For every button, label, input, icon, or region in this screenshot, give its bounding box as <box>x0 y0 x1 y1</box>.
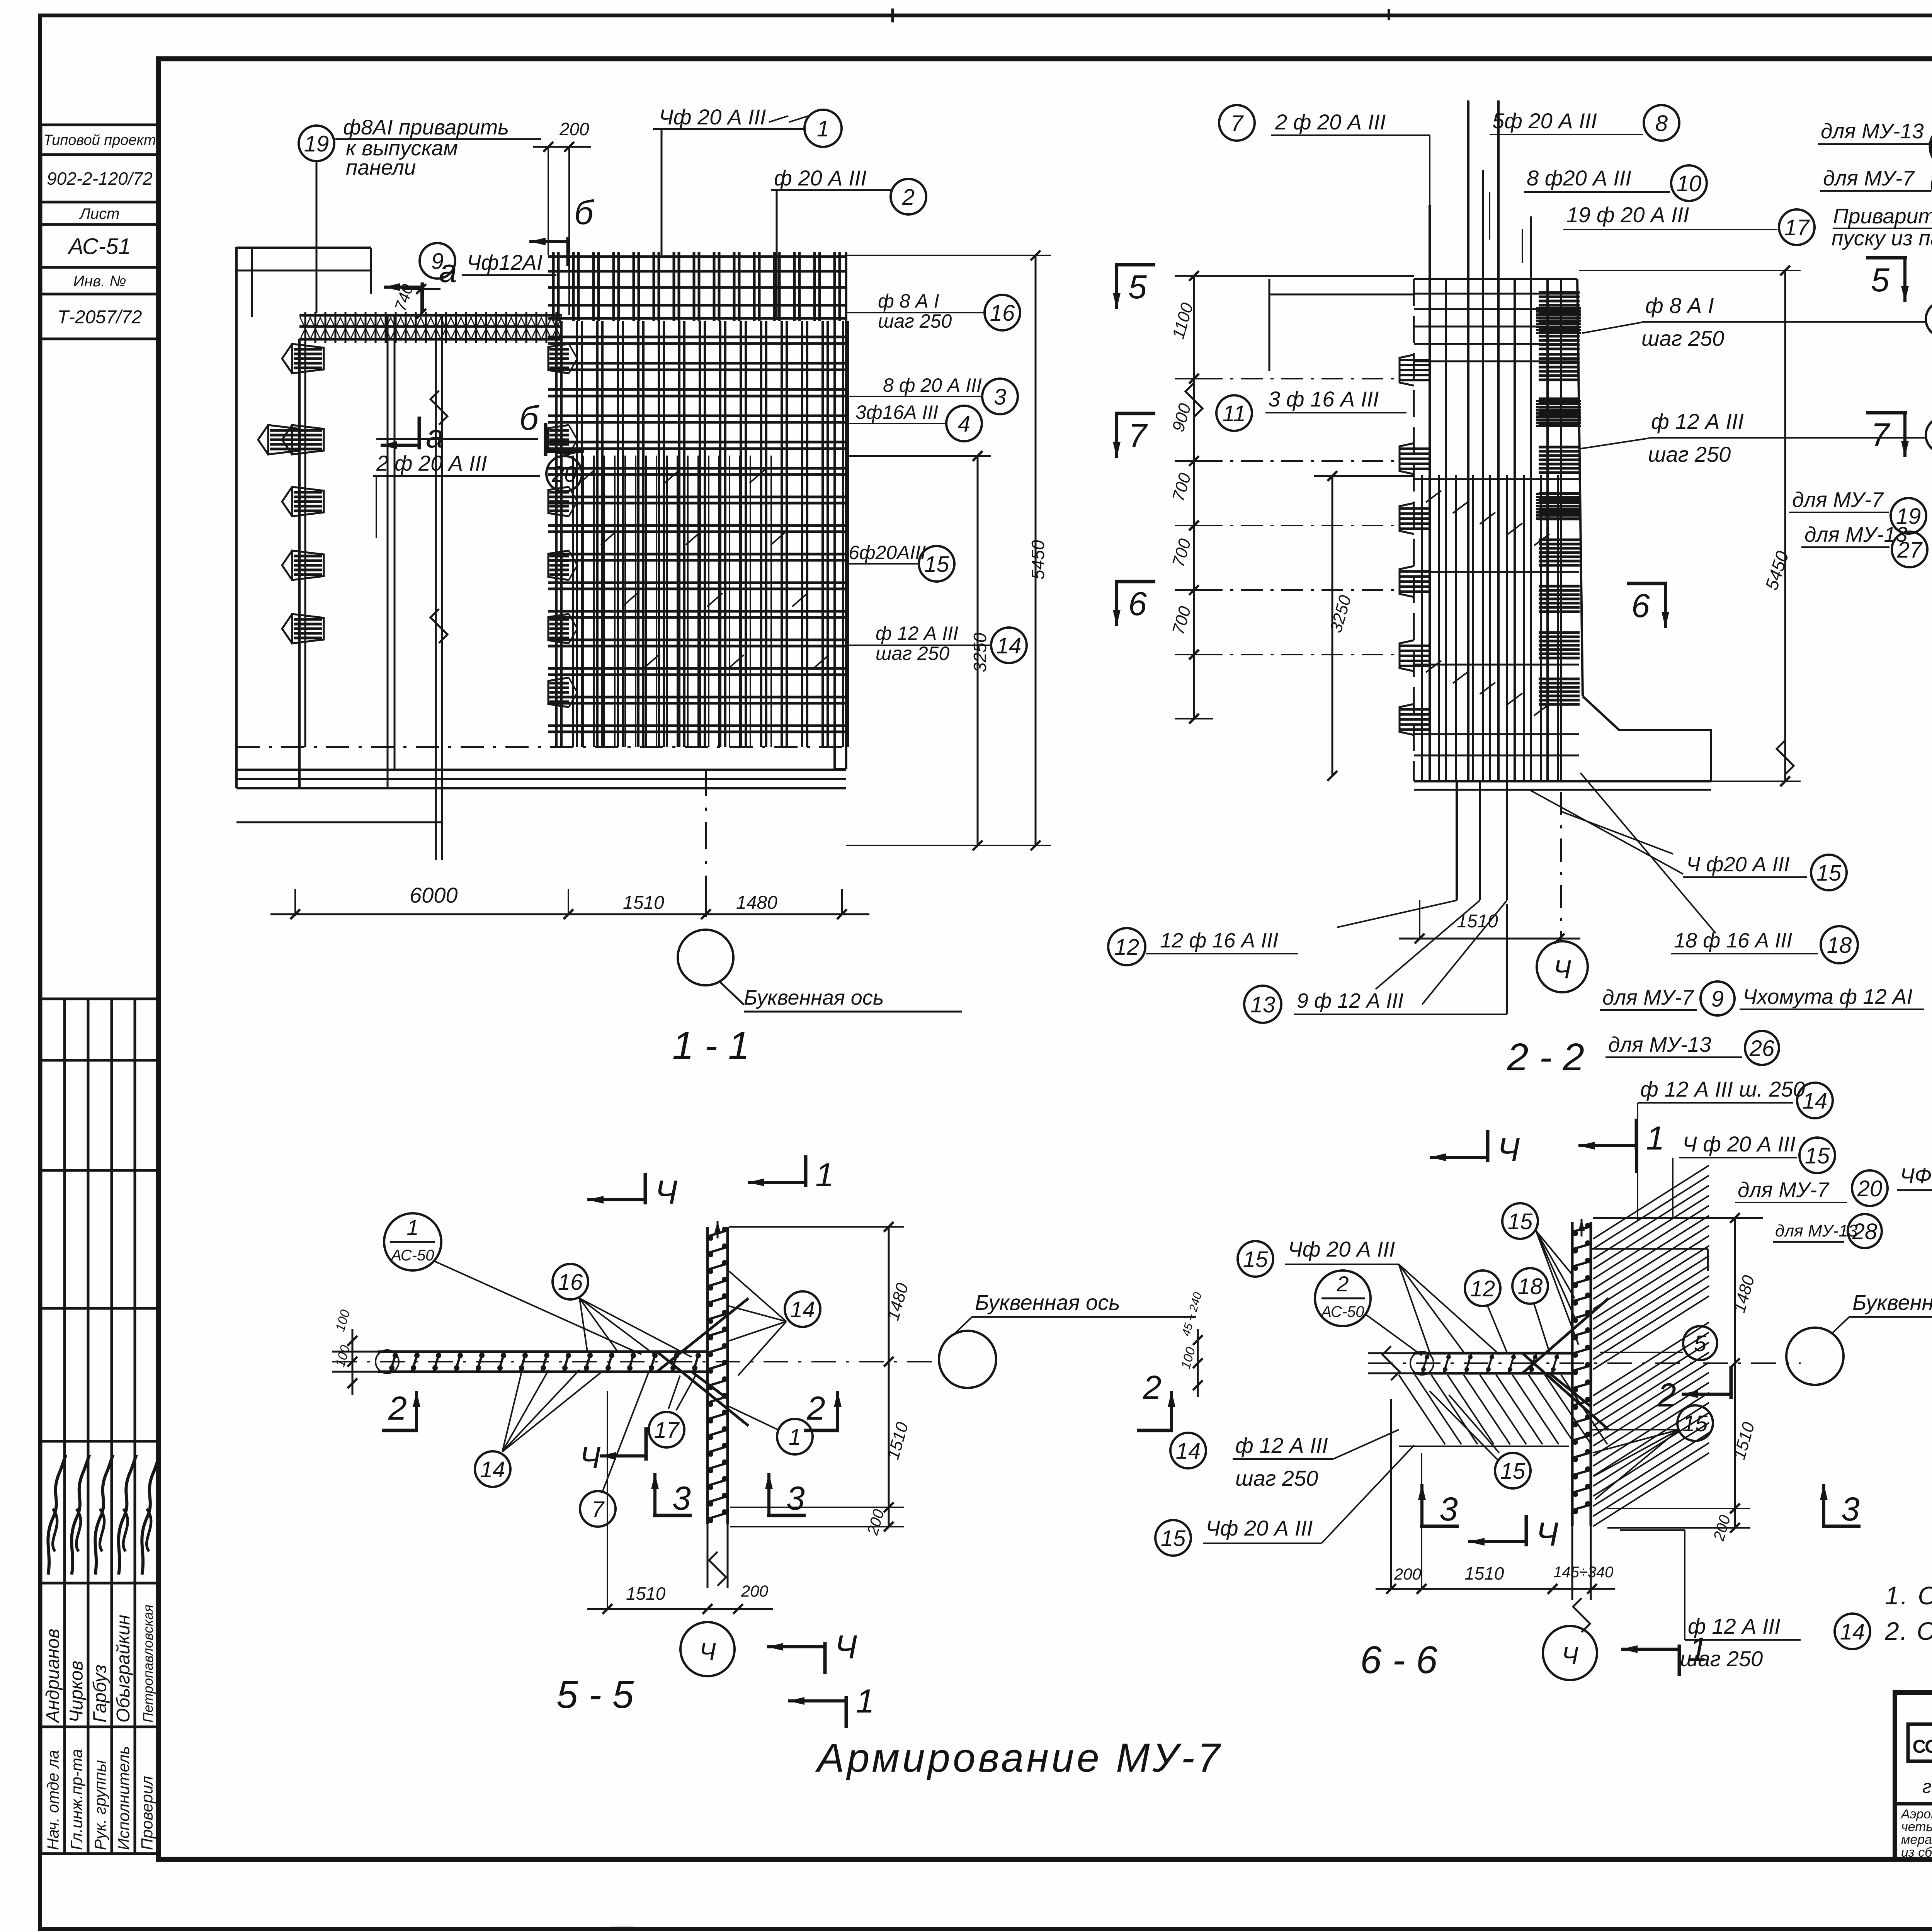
view 1-1: main grid horizontal bar pairs upper <box>548 336 846 338</box>
view 2-2: bottom dim 1510 <box>1399 938 1580 940</box>
view 2-2: callout 13 = 9ф12АIII <box>1244 986 1281 1023</box>
svg-text:1: 1 <box>1646 1120 1665 1157</box>
svg-text:2: 2 <box>1657 1377 1676 1414</box>
svg-text:20: 20 <box>1857 1176 1883 1201</box>
view 5-5: dim 1510 right <box>884 1502 893 1512</box>
svg-text:9: 9 <box>1711 986 1724 1012</box>
svg-text:СОЮЗВОДОКАНАЛПРОЕКТ: СОЮЗВОДОКАНАЛПРОЕКТ <box>1913 1736 1932 1757</box>
svg-text:2 - 2: 2 - 2 <box>1507 1036 1584 1079</box>
svg-text:3: 3 <box>786 1480 805 1517</box>
svg-text:ф 12 А III ш. 250: ф 12 А III ш. 250 <box>1640 1077 1805 1101</box>
svg-text:Обыграйкин: Обыграйкин <box>113 1615 134 1723</box>
svg-text:ф 20 А III: ф 20 А III <box>774 166 867 190</box>
svg-text:Гарбуз: Гарбуз <box>90 1665 111 1723</box>
svg-text:ф 12 А III: ф 12 А III <box>876 622 958 644</box>
svg-text:АС-51: АС-51 <box>67 234 131 259</box>
svg-text:3: 3 <box>994 384 1006 410</box>
svg-text:12: 12 <box>1114 935 1139 960</box>
svg-text:15: 15 <box>1500 1459 1526 1484</box>
view 6-6: fan hatch below-left of horizontal bar <box>1399 1375 1445 1444</box>
svg-text:2. Совместно с данным листом: 2. Совместно с данным листом см. лист АС… <box>1884 1617 1932 1645</box>
svg-text:5 - 5: 5 - 5 <box>556 1673 634 1716</box>
view 2-2: horizontal bars across wall <box>1414 293 1579 295</box>
view 6-6: callout 15 right mid <box>1677 1405 1713 1441</box>
view 2-2: wall outline <box>1413 279 1415 781</box>
view 5-5: dim 1480 right <box>888 1227 890 1527</box>
view 5-5: callout 14 right <box>785 1291 820 1327</box>
svg-text:2: 2 <box>1143 1369 1162 1406</box>
svg-text:Ч ф20 А III: Ч ф20 А III <box>1686 853 1790 876</box>
view 5-5: section mark 4 top <box>587 1198 645 1201</box>
svg-text:5: 5 <box>1871 262 1890 299</box>
view 6-6: fan hatch right of bar upper <box>1593 1165 1709 1239</box>
svg-text:Андрианов: Андрианов <box>43 1629 63 1724</box>
view 5-5: letter axis circle right <box>939 1331 996 1388</box>
fold tick marks on outer border <box>891 9 894 22</box>
view 1-1: inner dense sub-grid (lower portion) <box>572 456 574 747</box>
svg-text:пуску из панели: пуску из панели <box>1832 226 1932 250</box>
svg-text:10: 10 <box>1677 171 1702 196</box>
svg-text:8: 8 <box>1655 111 1668 136</box>
svg-text:7: 7 <box>592 1497 605 1522</box>
view 6-6: callout 15 lower mid <box>1495 1453 1531 1488</box>
svg-text:8 ф 20 А III: 8 ф 20 А III <box>883 374 982 396</box>
svg-text:а: а <box>426 418 444 454</box>
svg-text:14: 14 <box>1176 1439 1201 1464</box>
svg-text:Армирование МУ-7: Армирование МУ-7 <box>815 1735 1223 1781</box>
svg-text:для МУ-7: для МУ-7 <box>1602 985 1694 1009</box>
svg-text:Нач. отде ла: Нач. отде ла <box>44 1750 62 1850</box>
view 6-6: dim 200 right <box>1730 1523 1740 1532</box>
view 1-1: grid right edge verticals <box>833 252 836 769</box>
svg-text:б: б <box>574 193 595 231</box>
view 6-6: dims 100/45÷240 left <box>1197 1329 1199 1397</box>
view 1-1: main grid verticals <box>555 321 558 747</box>
svg-text:145÷340: 145÷340 <box>1553 1564 1613 1581</box>
view 2-2: dense splice bundles <box>1536 307 1581 310</box>
view 5-5: junction diagonals <box>657 1298 748 1372</box>
svg-text:6: 6 <box>1128 585 1147 622</box>
svg-text:1: 1 <box>817 116 829 141</box>
svg-text:Проверил: Проверил <box>138 1776 156 1850</box>
svg-text:26: 26 <box>1749 1036 1775 1061</box>
svg-text:г. Москва: г. Москва <box>1922 1777 1932 1797</box>
view 1-1: callout 9 = 4ф12АI <box>420 243 455 279</box>
view 6-6: dim 1480 right <box>1734 1218 1736 1528</box>
svg-text:15: 15 <box>1243 1247 1268 1272</box>
signature squiggle 5 <box>142 1455 160 1575</box>
view 5-5: center axis line <box>332 1361 940 1362</box>
view 2-2: top extension lines <box>1196 275 1414 277</box>
view 2-2: left shear keys <box>1400 355 1414 386</box>
view 2-2: section marks left <box>1115 265 1118 309</box>
view 6-6: upper-right region lines <box>1591 1248 1708 1250</box>
signature squiggle 2 <box>71 1455 89 1575</box>
view 6-6: vertical bar column <box>1571 1222 1574 1526</box>
view 1-1: dense top band grid <box>552 252 555 321</box>
svg-text:АС-50: АС-50 <box>1320 1303 1364 1320</box>
svg-text:5: 5 <box>1128 269 1147 306</box>
view 1-1: section mark a upper <box>384 286 422 289</box>
svg-text:9 ф 12 А III: 9 ф 12 А III <box>1297 989 1403 1012</box>
view 1-1: inner dim 3250 <box>977 456 979 845</box>
view 2-2: axis circle 4 <box>1560 792 1562 941</box>
view 5-5: section marks 3 <box>653 1473 656 1515</box>
svg-text:11: 11 <box>1223 401 1246 426</box>
svg-text:Рук. группы: Рук. группы <box>91 1760 109 1850</box>
view 6-6: letter axis circle <box>1786 1328 1844 1385</box>
svg-text:1: 1 <box>406 1215 418 1240</box>
svg-text:Лист: Лист <box>79 205 120 222</box>
view 5-5: dims 100 100 left <box>352 1329 354 1395</box>
svg-text:1. Опалубочный чертеж МУ-7 см.: 1. Опалубочный чертеж МУ-7 см. лист АС-4… <box>1885 1581 1932 1610</box>
view 6-6: section marks 3 <box>1420 1484 1423 1526</box>
svg-text:шаг 250: шаг 250 <box>1648 442 1731 466</box>
svg-text:1: 1 <box>856 1683 874 1720</box>
view 6-6: vertical bar tails <box>1571 1526 1573 1600</box>
svg-text:Ч: Ч <box>1561 1641 1578 1669</box>
svg-text:19 ф 20 А III: 19 ф 20 А III <box>1566 202 1689 227</box>
svg-text:1: 1 <box>789 1425 801 1450</box>
view 2-2: right edge bar bundles <box>1539 291 1580 294</box>
svg-text:Петропавловская: Петропавловская <box>140 1605 156 1723</box>
svg-text:Ч: Ч <box>580 1440 600 1475</box>
view 6-6: callout 14 = ф12АIII шаг 250 <box>1170 1433 1206 1468</box>
svg-text:Чф12АI: Чф12АI <box>467 250 543 274</box>
svg-text:1: 1 <box>815 1156 834 1194</box>
svg-text:для МУ-13: для МУ-13 <box>1608 1032 1711 1056</box>
view 1-1: horizontal mesh band (4ф12АI) <box>299 314 562 317</box>
svg-text:из сборного железобетона.: из сборного железобетона. <box>1901 1845 1932 1860</box>
view 5-5: horizontal bar row <box>378 1350 707 1353</box>
svg-text:4: 4 <box>958 412 970 437</box>
view 1-1: wide key (2ф20АIII target) <box>268 425 300 454</box>
title block frame <box>1895 1692 1932 1859</box>
view 5-5: callout 1/AC-50 <box>384 1213 441 1270</box>
svg-text:Ч: Ч <box>1536 1516 1558 1553</box>
svg-text:200: 200 <box>559 119 589 139</box>
view 6-6: horizontal bar row <box>1413 1352 1572 1355</box>
svg-text:200: 200 <box>1394 1565 1422 1583</box>
svg-text:шаг 250: шаг 250 <box>1641 326 1724 350</box>
view 1-1: left wall edge lines <box>235 247 238 788</box>
svg-text:2: 2 <box>806 1390 825 1427</box>
view 6-6: callout 15 left = 4ф20АIII <box>1238 1241 1273 1277</box>
svg-text:2: 2 <box>388 1390 407 1427</box>
svg-text:14: 14 <box>997 633 1022 658</box>
stamp column boxes <box>41 125 158 155</box>
view 2-2: dim 3250 inner <box>1332 476 1333 776</box>
svg-text:15: 15 <box>1816 861 1842 886</box>
svg-text:для МУ-7: для МУ-7 <box>1738 1178 1830 1202</box>
svg-text:шаг 250: шаг 250 <box>1235 1466 1318 1490</box>
view 5-5: horizontal bar left tails <box>332 1351 378 1353</box>
svg-text:20: 20 <box>551 462 577 487</box>
svg-text:Ч: Ч <box>699 1638 716 1665</box>
svg-text:АС-50: АС-50 <box>390 1247 434 1264</box>
svg-text:Чф 20 А III: Чф 20 А III <box>659 105 766 129</box>
svg-text:5: 5 <box>1694 1331 1707 1356</box>
svg-text:17: 17 <box>1784 215 1810 240</box>
view 2-2: dash-dot axis lines to keys <box>1201 378 1400 379</box>
svg-text:14: 14 <box>1840 1619 1865 1645</box>
svg-text:1510: 1510 <box>1457 911 1498 932</box>
view 1-1: bottom dashed axis line <box>236 746 846 748</box>
svg-text:15: 15 <box>1508 1209 1533 1234</box>
svg-text:3 ф 16 А III: 3 ф 16 А III <box>1268 387 1379 411</box>
svg-text:14: 14 <box>790 1297 815 1322</box>
svg-text:6ф20АIII: 6ф20АIII <box>849 542 926 563</box>
view 5-5: callout 16 <box>553 1264 588 1299</box>
svg-text:Гл.инж.пр-та: Гл.инж.пр-та <box>68 1749 86 1850</box>
view 1-1: main grid horizontal bar pairs lower <box>548 467 846 470</box>
view 6-6: center axis line <box>1368 1362 1801 1364</box>
svg-text:15: 15 <box>1805 1143 1830 1168</box>
svg-text:15: 15 <box>924 552 949 577</box>
view 5-5: section mark 4 bottom + 1 <box>767 1645 825 1648</box>
view 6-6: callout 2/AC-50 <box>1315 1270 1371 1326</box>
view 1-1: right dim 5450 <box>1035 255 1037 846</box>
view 6-6: axis circle bottom <box>1543 1626 1597 1680</box>
view 6-6: callouts 12 18 <box>1465 1270 1500 1306</box>
svg-text:1480: 1480 <box>736 893 777 913</box>
view 6-6: horizontal bar left tails <box>1368 1352 1413 1354</box>
svg-text:3250: 3250 <box>970 633 990 672</box>
svg-text:27: 27 <box>1897 537 1923 563</box>
svg-text:для МУ-13: для МУ-13 <box>1775 1221 1858 1240</box>
view 2-2: lower-mid sub-grid <box>1421 475 1423 781</box>
svg-text:3: 3 <box>1841 1491 1860 1528</box>
svg-text:28: 28 <box>1852 1219 1878 1244</box>
svg-text:ф8АI приварить: ф8АI приварить <box>343 115 509 139</box>
svg-text:Типовой проект: Типовой проект <box>43 132 156 148</box>
svg-text:5ф 20 А III: 5ф 20 А III <box>1492 109 1597 133</box>
svg-text:12: 12 <box>1470 1276 1495 1301</box>
view 6-6: section mark 1 top <box>1578 1144 1636 1147</box>
view 5-5: callout 1 mid <box>777 1419 813 1454</box>
svg-text:ф 12 А III: ф 12 А III <box>1688 1614 1781 1638</box>
svg-text:Исполнитель: Исполнитель <box>114 1746 133 1850</box>
view 5-5: callout 14 left <box>475 1451 510 1487</box>
view 2-2: callout 12 = 12ф16АIII <box>1108 928 1145 965</box>
view 2-2: callout 11 = 3ф16АIII <box>1216 395 1252 431</box>
view 6-6: section mark 1 bottom + 4 label <box>1621 1648 1679 1651</box>
svg-text:18: 18 <box>1518 1274 1543 1299</box>
svg-text:6: 6 <box>1631 587 1650 624</box>
svg-text:Ч: Ч <box>655 1174 677 1211</box>
view 6-6: section mark 4 top-left <box>1430 1156 1488 1159</box>
svg-text:а: а <box>439 253 457 289</box>
svg-text:ЧФ 20А-III: ЧФ 20А-III <box>1900 1163 1932 1188</box>
svg-text:6 - 6: 6 - 6 <box>1360 1638 1437 1682</box>
svg-text:панели: панели <box>346 155 416 179</box>
svg-text:18: 18 <box>1827 933 1852 958</box>
view 5-5: dim 200 right <box>884 1522 893 1531</box>
signature squiggle 1 <box>48 1455 66 1575</box>
view 1-1: shear keys at grid edge <box>548 344 569 373</box>
view 6-6: section mark 4 bottom <box>1468 1540 1526 1543</box>
svg-text:19: 19 <box>304 131 329 156</box>
svg-text:7: 7 <box>1871 417 1891 454</box>
svg-text:ф 12 А III: ф 12 А III <box>1235 1433 1328 1458</box>
view 2-2: bottom leaders <box>1337 900 1457 927</box>
svg-text:3ф16А III: 3ф16А III <box>855 401 938 423</box>
view 1-1: inner wall face verticals <box>387 315 389 788</box>
svg-text:8 ф20 А III: 8 ф20 А III <box>1527 166 1631 190</box>
view 5-5: callout 17 <box>649 1412 684 1447</box>
svg-text:200: 200 <box>741 1582 769 1600</box>
view 6-6: callout 15 upper-left of bar <box>1502 1203 1538 1239</box>
view 5-5: callout 7 <box>580 1491 616 1527</box>
svg-text:Ч: Ч <box>1497 1131 1520 1168</box>
svg-text:1510: 1510 <box>623 893 664 913</box>
view 1-1: left wall verticals <box>298 339 301 788</box>
svg-text:Буквенная ось: Буквенная ось <box>1852 1290 1932 1315</box>
svg-text:шаг 250: шаг 250 <box>1680 1646 1763 1671</box>
svg-text:Т-2057/72: Т-2057/72 <box>58 307 142 327</box>
svg-text:2: 2 <box>1336 1272 1349 1296</box>
svg-text:для МУ-7: для МУ-7 <box>1792 488 1884 512</box>
svg-text:1 - 1: 1 - 1 <box>672 1024 750 1067</box>
view 6-6: callout 5 <box>1683 1326 1717 1360</box>
svg-text:для МУ-13: для МУ-13 <box>1821 119 1924 143</box>
view 2-2: vertical rebars inside wall <box>1429 205 1431 781</box>
svg-text:5450: 5450 <box>1028 540 1048 580</box>
svg-text:2: 2 <box>902 185 915 210</box>
svg-text:ф 8 А I: ф 8 А I <box>1645 293 1714 318</box>
view 1-1: letter axis circle <box>678 930 733 985</box>
svg-text:15: 15 <box>1683 1411 1708 1436</box>
view 1-1: section mark a lower <box>381 444 419 447</box>
view 5-5: axis circle bottom <box>680 1622 735 1676</box>
svg-text:7: 7 <box>1128 417 1148 454</box>
view 1-1: wall axis double line <box>435 315 437 860</box>
svg-text:шаг 250: шаг 250 <box>878 310 952 332</box>
view 1-1: callout 19 with text <box>299 126 334 161</box>
svg-text:ф 12 А III: ф 12 А III <box>1651 409 1744 434</box>
view 5-5: bottom dim 1510/200 <box>587 1608 773 1610</box>
svg-text:16: 16 <box>558 1270 583 1295</box>
svg-text:б: б <box>519 399 540 437</box>
view 2-2: left dim column <box>1193 276 1195 719</box>
svg-text:Буквенная ось: Буквенная ось <box>975 1290 1120 1315</box>
view 1-1: bottom wall lines <box>236 769 846 771</box>
view 1-1: axis line down to circle <box>705 769 707 929</box>
svg-text:Чирков: Чирков <box>66 1661 87 1723</box>
svg-text:2 ф 20 А III: 2 ф 20 А III <box>1275 110 1386 134</box>
view 2-2: top callouts row1: circle 7 = 2ф20АIII <box>1219 105 1255 141</box>
svg-text:15: 15 <box>1161 1526 1186 1551</box>
svg-text:для МУ-7: для МУ-7 <box>1823 166 1915 190</box>
svg-text:2 ф 20 А III: 2 ф 20 А III <box>376 451 487 475</box>
svg-text:7: 7 <box>1231 111 1244 136</box>
svg-text:Ч: Ч <box>1553 955 1571 984</box>
svg-text:Чф 20 А III: Чф 20 А III <box>1206 1516 1313 1540</box>
svg-text:Инв. №: Инв. № <box>73 273 126 290</box>
view 6-6: dim 1510 right <box>1730 1503 1740 1513</box>
svg-text:Чф 20 А III: Чф 20 А III <box>1288 1237 1395 1261</box>
view 2-2: rebar tails below wall <box>1456 781 1458 900</box>
view 2-2: section marks right <box>1903 258 1906 302</box>
view 2-2: footing at bottom right <box>1583 696 1711 781</box>
signature squiggle 3 <box>95 1455 113 1575</box>
svg-text:3: 3 <box>672 1480 691 1517</box>
view 6-6: junction diagonals <box>1522 1298 1609 1373</box>
view 6-6: fan hatch right of bar lower <box>1593 1322 1709 1396</box>
svg-text:13: 13 <box>1250 992 1276 1017</box>
view 6-6: bottom dim 200/1510/145÷340 <box>1376 1588 1615 1590</box>
view 5-5: vertical bar tails <box>707 1524 709 1588</box>
signature squiggle 4 <box>119 1455 136 1575</box>
view 5-5: section mark 1 top right <box>748 1181 806 1184</box>
svg-text:6000: 6000 <box>410 883 458 907</box>
signature table strips <box>40 999 43 1854</box>
svg-text:12 ф 16 А III: 12 ф 16 А III <box>1160 929 1278 952</box>
svg-text:16: 16 <box>990 301 1015 326</box>
svg-text:Чхомута ф 12 АI: Чхомута ф 12 АI <box>1743 985 1913 1009</box>
view 2-2: right dim 5450 <box>1784 270 1786 781</box>
svg-text:17: 17 <box>654 1418 680 1443</box>
svg-text:Ч: Ч <box>835 1629 857 1666</box>
svg-text:3: 3 <box>1439 1491 1458 1528</box>
svg-text:Ч ф 20 А III: Ч ф 20 А III <box>1682 1132 1796 1156</box>
view 1-1: bottom dimension line 6000/1510/1480 <box>270 913 869 915</box>
svg-text:1510: 1510 <box>626 1583 666 1604</box>
svg-text:902-2-120/72: 902-2-120/72 <box>47 168 153 189</box>
svg-text:1510: 1510 <box>1464 1563 1504 1583</box>
svg-text:Буквенная ось: Буквенная ось <box>744 986 884 1009</box>
view 6-6: callout 15 bottom = 4ф20АIII <box>1155 1520 1191 1556</box>
svg-text:Приварить к вы-: Приварить к вы- <box>1833 204 1932 228</box>
svg-text:ф 8 А I: ф 8 А I <box>878 290 939 312</box>
svg-text:14: 14 <box>480 1457 505 1482</box>
svg-text:14: 14 <box>1803 1088 1828 1114</box>
tall empty stamp box <box>41 339 158 999</box>
view 5-5: vertical bar column <box>706 1227 709 1524</box>
svg-text:18 ф 16 А III: 18 ф 16 А III <box>1674 929 1792 952</box>
view 1-1: shear key blocks on left wall <box>292 344 324 373</box>
